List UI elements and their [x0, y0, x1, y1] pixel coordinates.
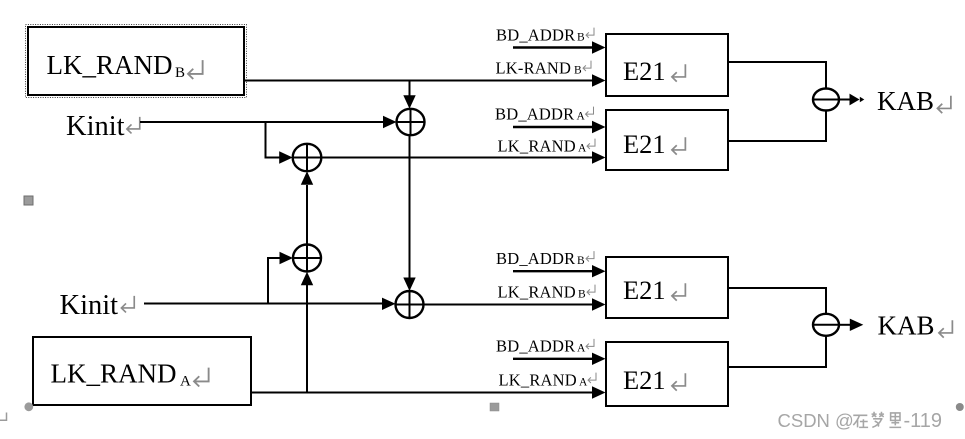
svg-text:LK_RAND: LK_RAND: [51, 359, 177, 389]
label LK_RAND_B text: [47, 50, 186, 81]
svg-text:BD_ADDR: BD_ADDR: [496, 249, 575, 268]
wire LK_RAND_A branch up to XOR3: [301, 272, 313, 393]
wire branch Kinit bottom to XOR3: [268, 252, 293, 304]
svg-text:A: A: [577, 343, 586, 355]
svg-text:CSDN @: CSDN @: [778, 410, 854, 431]
wire LK_RAND_B output to U1 input: [244, 74, 606, 86]
combiner node bottom (circled minus): [813, 314, 839, 336]
label KAB top: [877, 86, 934, 116]
label BD_ADDR_A input U2: [495, 105, 586, 124]
svg-text:BD_ADDR: BD_ADDR: [496, 26, 575, 45]
svg-text:A: A: [180, 374, 191, 390]
svg-text:Kinit: Kinit: [66, 111, 125, 142]
watermark -119: [904, 410, 943, 432]
watermark CJK li: [889, 413, 901, 427]
return mark after BD_ADDR_B U1: [586, 28, 594, 38]
svg-text:E21: E21: [623, 275, 666, 305]
xor X1: [397, 109, 425, 135]
svg-text:B: B: [577, 32, 585, 44]
return mark after Kinit bottom: [121, 296, 134, 313]
svg-text:A: A: [579, 377, 588, 389]
return mark after BD_ADDR_A U2: [586, 107, 594, 117]
wire XOR3 up to XOR2: [301, 171, 313, 244]
svg-text:LK_RAND: LK_RAND: [498, 283, 576, 302]
wire BD_ADDR_A into U2: [513, 121, 606, 133]
label E21 U3: [623, 275, 666, 305]
svg-text:A: A: [578, 143, 587, 155]
wire combiner1 output arrow to KAB top: [839, 94, 864, 106]
combiner node top (circled minus): [813, 89, 839, 111]
selection handle circle bottom right: [956, 403, 964, 411]
wire BD_ADDR_B into U1: [513, 41, 606, 53]
selection handle square left: [24, 196, 33, 205]
box LK_RAND_A textbox: [33, 337, 251, 405]
wire U2 output to combiner1: [728, 111, 826, 142]
box LK_RAND_B (selected textbox, dotted marquee): [26, 25, 247, 98]
svg-text:B: B: [578, 289, 586, 301]
label LK_RAND_B input U3: [498, 283, 587, 302]
label E21 U2: [623, 129, 666, 159]
svg-text:LK_RAND: LK_RAND: [47, 50, 173, 80]
label BD_ADDR_A input U4: [496, 337, 586, 356]
svg-text:E21: E21: [623, 56, 666, 86]
wire LK_RAND_A output to U4 input: [251, 386, 606, 398]
label E21 U4: [623, 365, 666, 395]
label KAB bottom: [878, 311, 935, 341]
svg-text:B: B: [577, 255, 585, 267]
label BD_ADDR_B input U3: [496, 249, 585, 268]
svg-text:KAB: KAB: [878, 311, 935, 341]
selection handle circle at LK_RAND_A corner: [24, 402, 33, 411]
svg-text:LK_RAND: LK_RAND: [499, 371, 577, 390]
wire U3 output to combiner2: [728, 288, 826, 314]
label LK_RAND_A input U4: [499, 371, 589, 390]
svg-text:B: B: [574, 65, 582, 77]
wire Kinit bottom to XOR4: [144, 298, 396, 310]
svg-text:BD_ADDR: BD_ADDR: [495, 105, 574, 124]
svg-text:LK_RAND: LK_RAND: [498, 137, 576, 156]
label Kinit top: [66, 111, 125, 142]
watermark CJK meng: [872, 412, 884, 428]
return mark after BD_ADDR_A U4: [586, 339, 594, 349]
return mark in U1: [672, 64, 685, 81]
label Kinit bottom: [60, 290, 119, 321]
return mark after KAB bottom: [939, 320, 952, 337]
wire branch down from LK_RAND_B wire to XOR1: [403, 81, 415, 109]
return mark in U4: [672, 373, 685, 390]
wire combiner2 output arrow to KAB bottom: [839, 319, 863, 331]
svg-text:Kinit: Kinit: [60, 290, 119, 321]
label LK-RAND_B input U1: [496, 59, 583, 78]
block E21 U1: [606, 34, 728, 96]
return mark after LK_RAND_A U4: [588, 373, 596, 383]
wire XOR4 output to U3 input: [424, 298, 606, 310]
return mark after KAB top: [937, 96, 950, 113]
watermark CSDN: [778, 410, 854, 431]
corner mark bottom left: [0, 413, 7, 421]
return mark after LK_RAND_B: [188, 60, 203, 79]
watermark CJK zai: [853, 415, 868, 427]
svg-text:E21: E21: [623, 365, 666, 395]
return mark after LK_RAND_A: [194, 368, 209, 387]
svg-text:A: A: [577, 111, 586, 123]
label LK_RAND_A input U2: [498, 137, 588, 156]
svg-text:B: B: [175, 65, 185, 81]
block E21 U4: [606, 342, 728, 406]
block E21 U3: [606, 257, 728, 318]
return mark after LK_RAND_A U2: [587, 139, 595, 149]
return mark after LK_RAND_B U3: [587, 285, 595, 295]
return mark in U2: [672, 137, 685, 154]
wire Kinit top to XOR1: [140, 116, 397, 128]
label E21 U1: [623, 56, 666, 86]
wire U1 output to combiner1: [728, 62, 826, 89]
wire BD_ADDR_A into U4: [513, 353, 606, 365]
svg-text:LK-RAND: LK-RAND: [496, 59, 572, 78]
wire BD_ADDR_B into U3: [513, 265, 606, 277]
xor X3: [293, 245, 321, 272]
wire U4 output to combiner2: [727, 336, 826, 367]
return mark after LK-RAND_B U1: [583, 61, 591, 71]
wire branch Kinit top to XOR2: [266, 122, 293, 164]
wire XOR2 output to U2 input: [321, 151, 605, 163]
svg-text:BD_ADDR: BD_ADDR: [496, 337, 575, 356]
xor X4: [396, 291, 424, 318]
xor X2: [293, 144, 322, 171]
return mark after Kinit top: [127, 117, 140, 134]
block E21 U2: [606, 110, 728, 170]
selection handle square bottom middle: [490, 403, 499, 411]
return mark after BD_ADDR_B U3: [586, 251, 594, 261]
svg-text:E21: E21: [623, 129, 666, 159]
svg-text:KAB: KAB: [877, 86, 934, 116]
wire XOR1 down to XOR4: [403, 135, 415, 291]
label BD_ADDR_B input U1: [496, 26, 585, 45]
label LK_RAND_A text: [51, 359, 192, 390]
svg-text:-119: -119: [904, 410, 943, 432]
return mark in U3: [672, 283, 685, 300]
